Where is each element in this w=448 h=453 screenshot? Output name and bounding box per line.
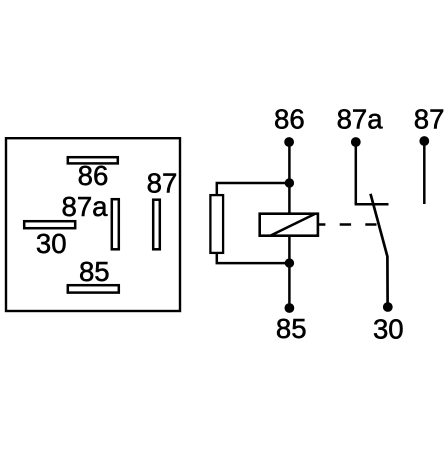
terminal dot 85 (285, 303, 295, 313)
svg-text:87a: 87a (337, 104, 384, 135)
wire resistor branch top (217, 183, 290, 196)
terminal blade 86 (top horizontal) (68, 157, 118, 163)
relay base outline (socket view) (6, 138, 180, 311)
terminal dot 86 (284, 137, 294, 147)
actuator dashed link segment 1 (319, 223, 326, 226)
switch blade (movable contact from 30) (371, 194, 388, 303)
terminal dot 30 (383, 302, 393, 312)
junction dot coil top (285, 178, 294, 187)
wire 86 to 85 (main vertical through coil) (288, 142, 291, 308)
terminal blade 87 (vertical) (153, 200, 160, 250)
svg-text:30: 30 (36, 228, 67, 259)
relay coil K (260, 214, 318, 236)
terminal blade 30 (left horizontal) (24, 221, 75, 228)
svg-text:87a: 87a (61, 191, 108, 222)
wire terminal 87 down (423, 141, 426, 204)
wire resistor branch bottom (217, 252, 290, 263)
svg-text:30: 30 (373, 314, 404, 345)
svg-text:87: 87 (414, 104, 445, 135)
wire terminal 87a down (355, 142, 358, 204)
terminal blade 85 (bottom horizontal) (68, 285, 119, 292)
actuator dashed link segment 3 (365, 223, 376, 226)
svg-text:85: 85 (79, 256, 110, 287)
svg-text:86: 86 (78, 160, 109, 191)
fixed contact 87a (horizontal) (355, 203, 389, 206)
svg-text:86: 86 (274, 104, 305, 135)
actuator dashed link segment 2 (340, 223, 351, 226)
resistor R (parallel to coil) (210, 195, 223, 253)
coil diagonal stroke (270, 214, 315, 236)
junction dot coil bottom (285, 258, 294, 267)
svg-text:85: 85 (276, 313, 307, 344)
terminal dot 87a (351, 137, 361, 147)
svg-text:87: 87 (147, 167, 178, 198)
terminal dot 87 (419, 136, 429, 146)
terminal blade 87a (vertical) (112, 199, 119, 249)
